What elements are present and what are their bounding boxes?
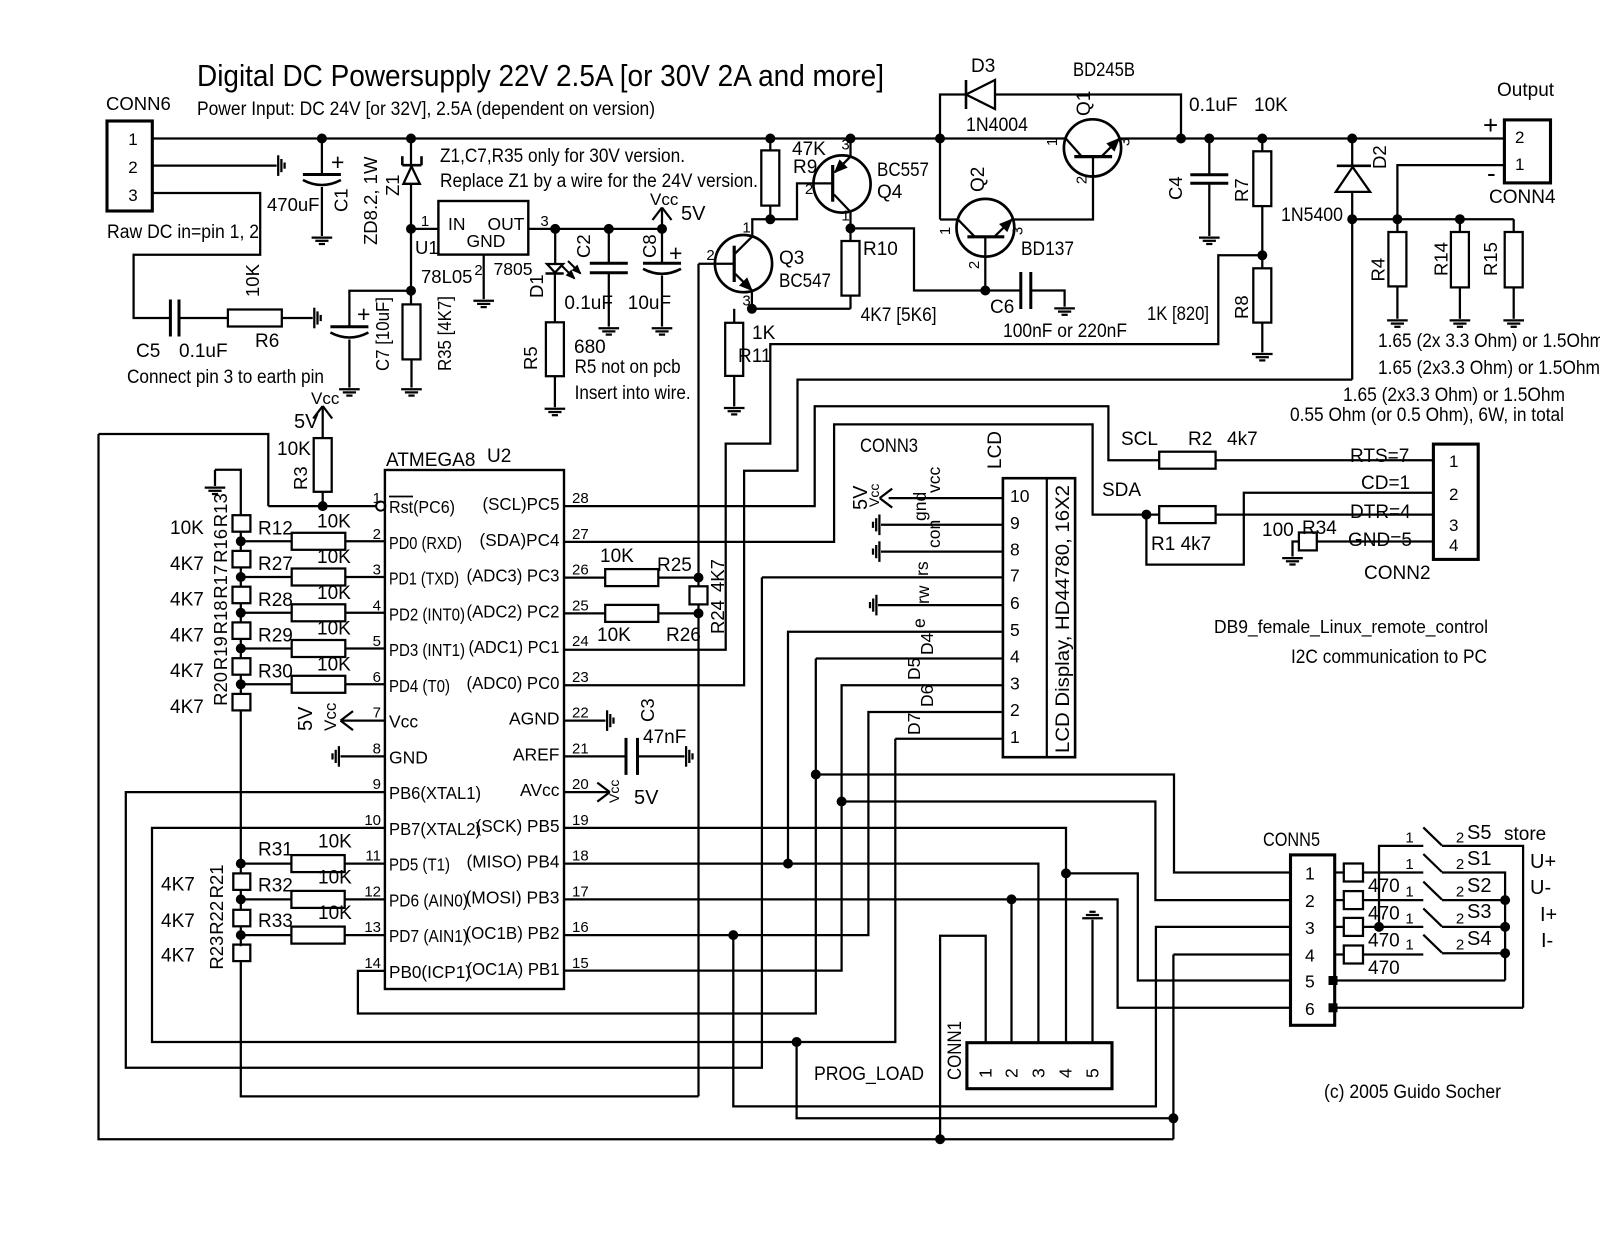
svg-text:(OC1B) PB2: (OC1B) PB2 bbox=[466, 923, 560, 943]
svg-text:1N5400: 1N5400 bbox=[1281, 205, 1343, 226]
junction dot C2 bbox=[604, 224, 613, 233]
wire S4 pin2 bbox=[1442, 952, 1505, 954]
wire R5 to ground bbox=[554, 376, 556, 407]
junction dot ladder tap R28 bbox=[236, 608, 245, 617]
svg-text:5V: 5V bbox=[295, 706, 317, 731]
wire CONN6 pin2 to ground bbox=[152, 164, 276, 166]
svg-text:1: 1 bbox=[1405, 910, 1413, 927]
junction dot R7 R8 divider bbox=[1258, 251, 1267, 260]
wire reset net R3 to pin1 and left loop bbox=[268, 505, 376, 507]
wire tap to R32 bbox=[241, 898, 292, 900]
ground at CONN6 pin2 bbox=[277, 155, 279, 176]
svg-text:2: 2 bbox=[1456, 856, 1464, 873]
svg-text:(ADC0) PC0: (ADC0) PC0 bbox=[467, 673, 560, 693]
ground at C4 bbox=[1199, 236, 1220, 238]
svg-text:11: 11 bbox=[365, 848, 381, 865]
wire pin26 to R25 bbox=[564, 576, 605, 578]
junction dot D2 output minus bbox=[1348, 215, 1357, 224]
svg-text:8: 8 bbox=[373, 740, 381, 757]
wire R2 to CONN2 RTS bbox=[1216, 459, 1434, 461]
svg-text:GND: GND bbox=[467, 231, 506, 251]
junction dot C7 R35 node bbox=[407, 286, 416, 295]
junction dot ladder tap R29 bbox=[236, 644, 245, 653]
svg-text:Q3: Q3 bbox=[779, 248, 804, 269]
resistor 470 ohm row 2 bbox=[1335, 899, 1344, 901]
svg-text:CONN4: CONN4 bbox=[1489, 187, 1556, 208]
wire PB2 branch to CONN5 pin3 bbox=[733, 927, 1290, 1107]
svg-text:1: 1 bbox=[1449, 452, 1458, 471]
wire D1 to R5 bbox=[554, 274, 556, 323]
svg-text:store: store bbox=[1504, 824, 1546, 845]
resistor R10 4K7 bbox=[849, 228, 851, 241]
svg-text:470: 470 bbox=[1368, 930, 1400, 951]
resistor R32 10K bbox=[291, 891, 344, 908]
svg-text:10K: 10K bbox=[318, 867, 352, 888]
svg-text:4K7: 4K7 bbox=[170, 554, 204, 575]
svg-text:2: 2 bbox=[706, 247, 714, 264]
svg-text:I2C communication to PC: I2C communication to PC bbox=[1291, 647, 1487, 668]
svg-text:1: 1 bbox=[1515, 155, 1524, 174]
svg-text:4k7: 4k7 bbox=[1227, 429, 1258, 450]
svg-text:R5 not on pcb: R5 not on pcb bbox=[575, 357, 681, 378]
svg-text:R35 [4K7]: R35 [4K7] bbox=[434, 296, 455, 371]
switch S3 bbox=[1423, 908, 1442, 926]
svg-text:PD6 (AIN0): PD6 (AIN0) bbox=[389, 890, 468, 910]
svg-text:28: 28 bbox=[572, 490, 589, 507]
junction dot S3 rail bbox=[1501, 922, 1510, 931]
junction dot reset CONN1 pin1 bbox=[936, 1135, 945, 1144]
junction dot ladder2 tap R32 bbox=[236, 895, 245, 904]
resistor R21 4K7 bbox=[233, 873, 250, 890]
svg-text:Vcc: Vcc bbox=[321, 702, 340, 731]
svg-text:6: 6 bbox=[1010, 593, 1020, 613]
wire ladder2 bottom to PC2 net bbox=[241, 961, 699, 1096]
switch S4 bbox=[1423, 935, 1442, 953]
junction dot ladder2 tap R31 bbox=[236, 859, 245, 868]
svg-text:con: con bbox=[924, 520, 944, 548]
svg-text:AVcc: AVcc bbox=[520, 780, 560, 800]
svg-text:20: 20 bbox=[572, 776, 589, 793]
svg-text:Vcc: Vcc bbox=[650, 190, 679, 209]
svg-text:PB7(XTAL2): PB7(XTAL2) bbox=[389, 819, 481, 839]
wire R27 to pin bbox=[345, 576, 385, 578]
resistor R6 10K bbox=[228, 310, 282, 327]
svg-text:5: 5 bbox=[1305, 972, 1315, 992]
svg-text:S1: S1 bbox=[1467, 848, 1491, 870]
wire pin28 SCL net bbox=[564, 406, 1159, 506]
resistor R11 1K bbox=[733, 309, 735, 323]
svg-text:Connect pin 3 to earth pin: Connect pin 3 to earth pin bbox=[127, 367, 324, 388]
ground for C1 bbox=[312, 236, 333, 238]
svg-text:10K: 10K bbox=[600, 546, 634, 567]
svg-text:2: 2 bbox=[1010, 700, 1020, 720]
wire tap to R31 bbox=[241, 862, 292, 864]
wire tap to R29 bbox=[241, 647, 292, 649]
svg-text:1: 1 bbox=[1405, 856, 1413, 873]
svg-text:(SCL)PC5: (SCL)PC5 bbox=[483, 494, 560, 514]
junction dot rail D3 left bbox=[936, 134, 945, 143]
svg-text:1: 1 bbox=[1010, 727, 1020, 747]
ground at R15 bbox=[1503, 319, 1524, 321]
svg-text:680: 680 bbox=[574, 337, 606, 358]
wire R29 to pin bbox=[345, 647, 385, 649]
connector CONN1 programming header bbox=[967, 1043, 1112, 1089]
svg-text:470uF: 470uF bbox=[267, 194, 319, 215]
wire LCD pin7 rs bbox=[762, 576, 1003, 578]
wire LCD pin8 con bbox=[881, 550, 1003, 552]
svg-text:(ADC2) PC2: (ADC2) PC2 bbox=[467, 601, 560, 621]
svg-text:1K [820]: 1K [820] bbox=[1147, 304, 1209, 325]
ground at R4 bbox=[1387, 319, 1408, 321]
svg-text:8: 8 bbox=[1010, 540, 1020, 560]
junction dot PB2 branch bbox=[729, 931, 738, 940]
connector CONN2 DB9 bbox=[1433, 444, 1478, 559]
transistor Q1 BD245B NPN bbox=[1064, 119, 1121, 176]
svg-text:1: 1 bbox=[1305, 864, 1315, 884]
svg-text:C3: C3 bbox=[637, 698, 658, 722]
svg-text:CONN2: CONN2 bbox=[1364, 563, 1431, 584]
svg-text:3: 3 bbox=[1028, 1068, 1048, 1078]
svg-text:0.1uF: 0.1uF bbox=[1189, 95, 1238, 116]
junction dot D7 branch bbox=[792, 1038, 801, 1047]
svg-text:Output: Output bbox=[1497, 80, 1555, 101]
junction dot rail Z1 bbox=[407, 134, 416, 143]
wire D4 branch to CONN5 pin1 bbox=[816, 775, 1291, 873]
svg-text:C5: C5 bbox=[136, 341, 160, 362]
wire R31 to pin bbox=[345, 862, 385, 864]
wire R6 to ground bbox=[282, 317, 313, 319]
svg-text:+: + bbox=[669, 240, 682, 266]
svg-text:Raw DC in=pin 1, 2: Raw DC in=pin 1, 2 bbox=[107, 222, 259, 243]
svg-text:2: 2 bbox=[1449, 485, 1458, 504]
wire R28 to pin bbox=[345, 612, 385, 614]
wire ladder segment bbox=[240, 603, 242, 622]
junction dot rail D3 right bbox=[1177, 134, 1186, 143]
svg-text:(c) 2005 Guido Socher: (c) 2005 Guido Socher bbox=[1324, 1082, 1502, 1103]
svg-text:LCD Display, HD44780, 16X2: LCD Display, HD44780, 16X2 bbox=[1053, 485, 1074, 753]
junction dot Z1 U1 bbox=[407, 224, 416, 233]
svg-text:+: + bbox=[357, 301, 370, 327]
svg-text:22: 22 bbox=[572, 705, 589, 722]
svg-text:(OC1A) PB1: (OC1A) PB1 bbox=[467, 959, 560, 979]
resistor 470 ohm row 4 bbox=[1335, 953, 1344, 955]
svg-text:4K7: 4K7 bbox=[161, 874, 195, 895]
svg-text:27: 27 bbox=[572, 526, 589, 543]
svg-text:PB6(XTAL1): PB6(XTAL1) bbox=[389, 783, 481, 803]
svg-text:U-: U- bbox=[1530, 877, 1551, 899]
svg-text:100: 100 bbox=[1262, 520, 1294, 541]
wire CONN5 pin5 to switch rail bbox=[1335, 979, 1505, 981]
svg-text:3: 3 bbox=[1010, 673, 1020, 693]
svg-text:I-: I- bbox=[1541, 930, 1553, 952]
wire Q3 collector to R9 node bbox=[752, 219, 770, 236]
svg-text:D2: D2 bbox=[1369, 145, 1390, 169]
svg-text:R22: R22 bbox=[206, 901, 227, 935]
ground at R11 bbox=[724, 407, 745, 409]
svg-text:2: 2 bbox=[128, 158, 137, 177]
svg-text:5V: 5V bbox=[681, 203, 706, 225]
wire pin15 PB1 net to LCD D5 bbox=[564, 685, 1003, 970]
svg-text:BC557: BC557 bbox=[877, 160, 929, 181]
junction dot S4 rail bbox=[1501, 949, 1510, 958]
svg-text:1: 1 bbox=[742, 220, 750, 237]
wire R1 to CONN2 DTR bbox=[1216, 513, 1434, 515]
svg-text:10K: 10K bbox=[170, 518, 204, 539]
svg-text:BC547: BC547 bbox=[779, 271, 831, 292]
svg-text:PD5 (T1): PD5 (T1) bbox=[389, 855, 450, 875]
svg-text:1: 1 bbox=[841, 208, 849, 225]
Vcc arrow at pin20 AVcc bbox=[564, 791, 610, 793]
wire pin9 XTAL1 to rs net bbox=[126, 577, 762, 1067]
wire CONN1 pin2 bbox=[1010, 899, 1012, 1042]
svg-text:(ADC1) PC1: (ADC1) PC1 bbox=[469, 637, 560, 657]
junction dot ladder2 tap R33 bbox=[236, 931, 245, 940]
wire 5V rail to D1 bbox=[554, 229, 556, 264]
junction dot D7 branch CONN5 pin4 line bbox=[1169, 1114, 1178, 1123]
svg-text:R3: R3 bbox=[290, 466, 311, 490]
resistor R24 4K7 bbox=[697, 578, 699, 587]
ground for C7 bbox=[339, 388, 360, 390]
svg-text:1: 1 bbox=[937, 227, 954, 235]
svg-text:PD4 (T0): PD4 (T0) bbox=[389, 676, 450, 696]
svg-text:10K: 10K bbox=[317, 619, 351, 640]
capacitor C6 100nF bbox=[985, 289, 1021, 291]
Vcc arrow at pin7 bbox=[341, 719, 385, 721]
ground at R34 bbox=[1282, 557, 1303, 559]
svg-text:2: 2 bbox=[1305, 891, 1315, 911]
wire pin16 PB2 net to LCD D6 bbox=[564, 712, 1003, 935]
resistor R1 4k7 bbox=[1159, 506, 1215, 523]
ic U2 ATMEGA8 bbox=[385, 470, 564, 989]
svg-text:5: 5 bbox=[1010, 620, 1020, 640]
svg-text:2: 2 bbox=[1074, 176, 1091, 184]
svg-text:C4: C4 bbox=[1165, 176, 1186, 200]
wire to C7 bbox=[349, 291, 411, 327]
svg-text:ATMEGA8: ATMEGA8 bbox=[386, 450, 475, 471]
junction dot ladder tap R27 bbox=[236, 573, 245, 582]
svg-text:R12: R12 bbox=[258, 518, 293, 539]
junction dot R3 reset bbox=[318, 502, 327, 511]
svg-text:2: 2 bbox=[1456, 829, 1464, 846]
svg-text:0.1uF: 0.1uF bbox=[564, 293, 613, 314]
svg-text:4K7: 4K7 bbox=[170, 697, 204, 718]
svg-text:10K: 10K bbox=[317, 547, 351, 568]
resistor R26 10K bbox=[605, 605, 658, 622]
svg-text:D1: D1 bbox=[526, 274, 547, 298]
wire CONN5 pin4 row bbox=[1173, 953, 1290, 955]
svg-text:4: 4 bbox=[1056, 1068, 1076, 1078]
svg-text:R23: R23 bbox=[206, 936, 227, 970]
capacitor C3 47nF at AREF bbox=[564, 755, 626, 757]
svg-text:12: 12 bbox=[364, 883, 381, 900]
wire PB1 branch to CONN5 pin2 bbox=[842, 802, 1291, 901]
svg-text:3: 3 bbox=[128, 186, 137, 205]
wire Q3 base down to R24 node bbox=[697, 264, 699, 578]
inverted ground at CONN1 pin5 bbox=[1082, 917, 1103, 919]
svg-text:2: 2 bbox=[1456, 884, 1464, 901]
svg-text:CONN6: CONN6 bbox=[106, 93, 171, 114]
svg-text:10: 10 bbox=[1010, 486, 1030, 506]
wire LCD pin4 D4 bbox=[816, 657, 1003, 659]
wire tap to R27 bbox=[241, 576, 292, 578]
wire CONN1 pin5 to ground bbox=[1091, 920, 1093, 1043]
svg-text:7: 7 bbox=[373, 705, 381, 722]
svg-text:3: 3 bbox=[1449, 516, 1458, 535]
ground at pin22 AGND bbox=[564, 719, 606, 721]
svg-text:3: 3 bbox=[1305, 918, 1315, 938]
svg-text:5V: 5V bbox=[634, 787, 659, 809]
wire pin10 XTAL2 to D7 net bbox=[152, 739, 895, 1042]
svg-text:R34: R34 bbox=[1302, 518, 1337, 539]
svg-text:R19: R19 bbox=[210, 636, 231, 670]
svg-text:470: 470 bbox=[1368, 876, 1400, 897]
switch S2 bbox=[1423, 882, 1442, 900]
svg-text:C1: C1 bbox=[331, 188, 352, 212]
svg-text:D6: D6 bbox=[917, 685, 937, 707]
wire Q4 emitter node to C6 node bbox=[851, 228, 986, 290]
capacitor C2 0.1uF bbox=[608, 229, 610, 263]
resistor R7 10K bbox=[1261, 139, 1263, 152]
resistor R15 shunt bbox=[1513, 219, 1515, 232]
svg-text:GND: GND bbox=[389, 747, 428, 767]
svg-text:470: 470 bbox=[1368, 958, 1400, 979]
svg-text:47nF: 47nF bbox=[643, 727, 686, 748]
wire pin17 MOSI net bbox=[564, 899, 1291, 1007]
junction dot PB1 branch bbox=[837, 797, 846, 806]
svg-text:AGND: AGND bbox=[509, 709, 560, 729]
svg-text:R13: R13 bbox=[210, 493, 231, 527]
wire D3 left down to Q2 base bbox=[939, 139, 941, 220]
wire R33 to pin bbox=[345, 934, 385, 936]
svg-text:4K7: 4K7 bbox=[170, 625, 204, 646]
svg-text:D4: D4 bbox=[917, 632, 937, 655]
svg-text:10K: 10K bbox=[317, 583, 351, 604]
wire R12 to pin bbox=[345, 540, 385, 542]
ground at C2 bbox=[599, 327, 620, 329]
svg-text:10K: 10K bbox=[242, 263, 263, 297]
svg-text:2: 2 bbox=[805, 181, 813, 198]
resistor R8 1K bbox=[1253, 268, 1271, 322]
wire main rail Q1 to CONN4 bbox=[1119, 137, 1504, 139]
resistor 470 ohm row 3 bbox=[1335, 926, 1344, 928]
capacitor C8 10uF bbox=[661, 229, 663, 263]
resistor R28 10K bbox=[292, 604, 346, 621]
junction dot D4 branch bbox=[811, 770, 820, 779]
diode D2 1N5400 bbox=[1351, 139, 1353, 167]
svg-text:PD3 (INT1): PD3 (INT1) bbox=[389, 640, 465, 660]
svg-text:2: 2 bbox=[1456, 937, 1464, 954]
junction dot rail C4 bbox=[1205, 134, 1214, 143]
resistor R12 10K bbox=[292, 533, 346, 550]
ground for R35 bbox=[401, 388, 422, 390]
svg-text:Q4: Q4 bbox=[877, 182, 903, 203]
resistor R4 shunt bbox=[1396, 219, 1398, 232]
svg-text:4: 4 bbox=[1305, 946, 1315, 966]
wire pin19 SCK net to CONN1 pin4 bbox=[564, 828, 1066, 1043]
Vcc symbol for R3 bbox=[313, 406, 323, 419]
svg-text:rs: rs bbox=[912, 561, 932, 576]
capacitor C7 10uF bbox=[330, 325, 368, 328]
svg-text:Q1: Q1 bbox=[1074, 91, 1095, 116]
wire CONN5 pin6 to S5 rail bbox=[1335, 1007, 1523, 1009]
svg-text:R21: R21 bbox=[206, 864, 227, 898]
svg-text:4K7: 4K7 bbox=[170, 590, 204, 611]
svg-text:U+: U+ bbox=[1530, 851, 1556, 873]
svg-text:CONN3: CONN3 bbox=[860, 436, 918, 457]
svg-text:1: 1 bbox=[1405, 884, 1413, 901]
junction dot Q2 emitter C6 bbox=[981, 286, 990, 295]
wire output minus rail bbox=[1352, 218, 1514, 220]
junction dot R25 R24 bbox=[694, 573, 703, 582]
svg-text:R18: R18 bbox=[210, 600, 231, 634]
svg-text:4K7 [5K6]: 4K7 [5K6] bbox=[861, 305, 937, 326]
wire ladder segment bbox=[240, 639, 242, 658]
junction dot rail R9 bbox=[766, 134, 775, 143]
svg-text:(ADC3) PC3: (ADC3) PC3 bbox=[467, 566, 560, 586]
svg-text:R16: R16 bbox=[210, 529, 231, 563]
junction dot rail C1 bbox=[317, 134, 326, 143]
svg-text:100nF or 220nF: 100nF or 220nF bbox=[1003, 321, 1127, 342]
svg-text:7: 7 bbox=[1010, 565, 1020, 585]
svg-text:14: 14 bbox=[364, 955, 381, 972]
junction dot ladder tap R30 bbox=[236, 680, 245, 689]
wire R24 node down to PC2 ladder net bbox=[697, 613, 699, 1096]
svg-text:9: 9 bbox=[1010, 513, 1020, 533]
svg-text:R15: R15 bbox=[1480, 242, 1501, 276]
wire R25 to R24 node bbox=[658, 576, 698, 578]
svg-text:R6: R6 bbox=[255, 331, 279, 352]
ground at U1 pin2 bbox=[473, 300, 494, 302]
resistor R16 4K7 bbox=[233, 551, 251, 568]
svg-text:GND=5: GND=5 bbox=[1348, 530, 1412, 551]
svg-text:R32: R32 bbox=[258, 875, 293, 896]
transistor Q2 BD137 NPN bbox=[957, 199, 1015, 257]
resistor R35 4K7 bbox=[403, 304, 421, 359]
svg-text:1N4004: 1N4004 bbox=[966, 115, 1028, 136]
svg-text:CONN5: CONN5 bbox=[1263, 830, 1320, 851]
svg-text:24: 24 bbox=[572, 633, 589, 650]
wire ladder segment bbox=[240, 675, 242, 694]
wire R7 to R8 bbox=[1261, 206, 1263, 268]
svg-text:R29: R29 bbox=[258, 626, 293, 647]
resistor R25 10K bbox=[605, 569, 658, 586]
svg-text:Power Input: DC 24V [or 32V],: Power Input: DC 24V [or 32V], 2.5A (depe… bbox=[197, 99, 655, 120]
svg-text:R30: R30 bbox=[258, 661, 293, 682]
square pad CONN5 pin6 bbox=[1329, 1004, 1337, 1012]
resistor R20 4K7 bbox=[233, 694, 251, 711]
wire U1 OUT to 5V node bbox=[528, 228, 662, 230]
wire CONN6 pin3 to C5 bbox=[134, 193, 261, 318]
svg-text:rw: rw bbox=[913, 585, 933, 604]
svg-text:S5: S5 bbox=[1467, 822, 1491, 844]
wire CONN5 pin4 vertical bbox=[1172, 955, 1174, 1140]
svg-text:R17: R17 bbox=[210, 565, 231, 599]
svg-text:DTR=4: DTR=4 bbox=[1350, 502, 1411, 523]
svg-text:4: 4 bbox=[1010, 647, 1020, 667]
svg-text:CD=1: CD=1 bbox=[1361, 473, 1410, 494]
svg-text:R31: R31 bbox=[258, 840, 293, 861]
zener diode Z1 ZD8.2 1W bbox=[410, 139, 412, 166]
svg-text:R1 4k7: R1 4k7 bbox=[1151, 534, 1211, 555]
resistor R34 100 bbox=[1317, 540, 1434, 542]
svg-text:S2: S2 bbox=[1467, 875, 1491, 897]
wire D7 branch to CONN5 pin4 bbox=[797, 1042, 1174, 1118]
wire R30 to pin bbox=[345, 683, 385, 685]
svg-text:6: 6 bbox=[1305, 999, 1315, 1019]
svg-text:R11: R11 bbox=[738, 346, 771, 367]
svg-text:5V: 5V bbox=[850, 485, 872, 510]
svg-text:(SDA)PC4: (SDA)PC4 bbox=[480, 530, 560, 550]
